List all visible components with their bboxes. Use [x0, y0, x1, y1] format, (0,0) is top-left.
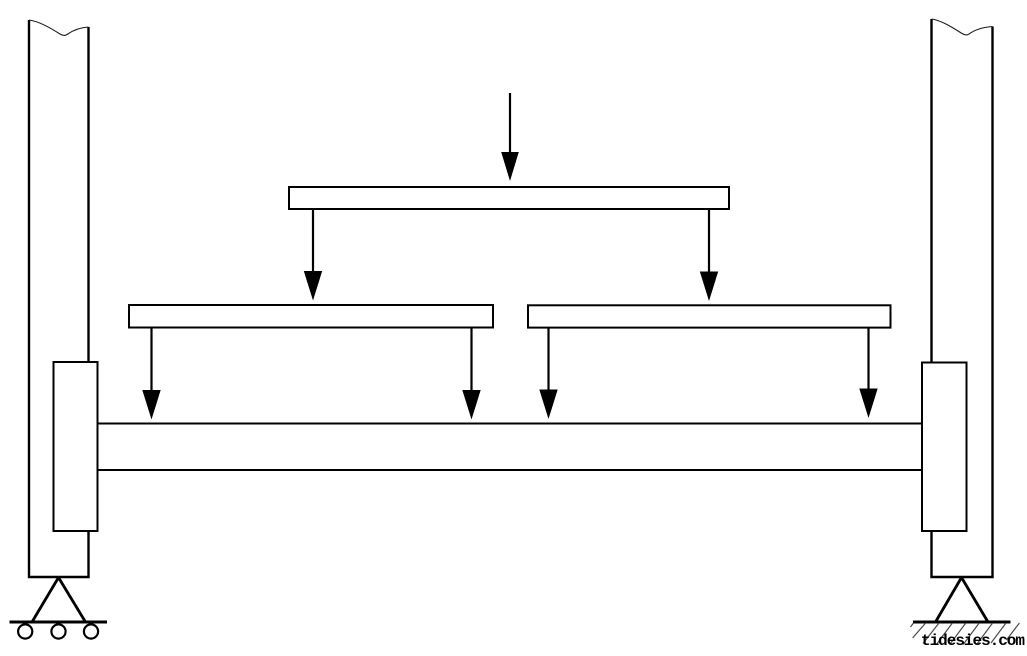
second spreader beam left — [129, 305, 493, 328]
left support ground line — [10, 621, 108, 624]
left roller circle 1 — [18, 624, 32, 638]
left column — [29, 20, 89, 577]
arrow beam1 left — [312, 209, 314, 275]
right column — [932, 19, 993, 577]
second spreader beam right — [528, 305, 891, 327]
right load cell rectangle — [922, 363, 967, 532]
top load arrow — [509, 93, 511, 156]
left roller circle 2 — [51, 624, 65, 638]
left support triangle (roller) — [32, 578, 86, 623]
arrow 2R-b — [867, 328, 869, 393]
arrow 2L-b — [470, 328, 472, 395]
left roller circle 3 — [84, 624, 98, 638]
right column break line — [932, 19, 993, 35]
main beam (specimen) — [98, 424, 923, 471]
right support ground line — [913, 621, 1011, 624]
right support triangle (pin) — [936, 578, 989, 623]
right support hatching — [911, 623, 1020, 645]
left column break line — [29, 20, 89, 36]
svg-text:tidesies.com: tidesies.com — [921, 632, 1025, 650]
arrow 2R-a — [547, 328, 549, 394]
arrow beam1 right — [708, 209, 710, 275]
left load cell rectangle — [54, 362, 98, 531]
top spreader beam — [289, 187, 729, 209]
arrow 2L-a — [150, 328, 152, 395]
